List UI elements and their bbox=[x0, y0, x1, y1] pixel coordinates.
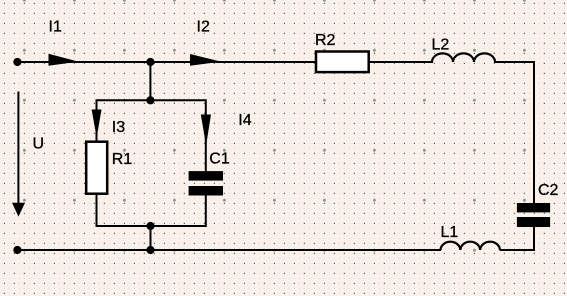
svg-text:I3: I3 bbox=[112, 119, 125, 136]
inductor L1 bbox=[441, 242, 500, 250]
node: mid junction bbox=[146, 96, 154, 104]
svg-text:I4: I4 bbox=[238, 112, 251, 129]
wire: top bus left segment bbox=[17, 61, 315, 63]
wire: top bus from L2 to right corner bbox=[494, 61, 535, 63]
wire: distribution line between R1 and C1 branches bbox=[97, 99, 206, 101]
wire: right vertical from C2 down to bottom bus bbox=[533, 227, 535, 252]
wire: drop from top junction to mid junction bbox=[149, 62, 151, 100]
node: left top terminal bbox=[13, 58, 21, 66]
inductor L2 bbox=[432, 53, 495, 62]
svg-text:L1: L1 bbox=[441, 224, 459, 241]
capacitor C1 (top plate) bbox=[189, 171, 223, 181]
wire: top bus between R2 and L2 bbox=[369, 61, 433, 63]
svg-text:C1: C1 bbox=[209, 150, 230, 167]
wire: bottom connector between R1 and C1 bbox=[97, 225, 206, 227]
wire: bottom bus from L1 to right corner bbox=[500, 249, 536, 251]
capacitor C2 (top plate) bbox=[517, 203, 550, 212]
svg-text:U: U bbox=[33, 136, 45, 153]
resistor R1 bbox=[86, 142, 107, 194]
current arrow I3 bbox=[92, 110, 102, 138]
current arrow I2 bbox=[190, 54, 221, 66]
wire: R1 top lead bbox=[96, 99, 98, 141]
voltage arrow U (shaft) bbox=[17, 92, 19, 205]
node: bottom connector junction bbox=[146, 222, 154, 230]
node: left bottom terminal bbox=[13, 246, 21, 254]
voltage arrow U (head) bbox=[12, 203, 25, 217]
svg-text:L2: L2 bbox=[432, 37, 450, 54]
svg-text:I2: I2 bbox=[197, 18, 210, 35]
current arrow I4 bbox=[201, 115, 211, 146]
current arrow I1 bbox=[49, 54, 79, 66]
resistor R2 bbox=[316, 52, 369, 73]
wire: R1 bottom lead bbox=[96, 194, 98, 227]
wire: drop from connector junction to bottom bus bbox=[150, 226, 152, 250]
node: top junction bbox=[146, 58, 154, 66]
node: bottom bus junction bbox=[146, 246, 154, 254]
svg-text:R2: R2 bbox=[315, 32, 336, 49]
svg-text:I1: I1 bbox=[49, 18, 62, 35]
svg-text:C2: C2 bbox=[538, 182, 559, 199]
svg-text:R1: R1 bbox=[112, 151, 133, 168]
capacitor C2 (bottom plate) bbox=[517, 217, 550, 227]
capacitor C1 (bottom plate) bbox=[189, 186, 223, 196]
wire: right vertical from corner down to C2 bbox=[533, 61, 535, 204]
wire: C1 top lead bbox=[205, 99, 207, 171]
wire: C1 bottom lead bbox=[205, 195, 207, 227]
wire: bottom bus left segment bbox=[17, 249, 441, 251]
